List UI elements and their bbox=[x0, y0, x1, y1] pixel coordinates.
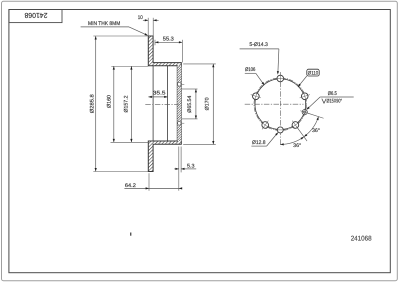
svg-text:55.3: 55.3 bbox=[163, 36, 174, 42]
svg-text:36°: 36° bbox=[312, 128, 320, 134]
svg-text:Ø170: Ø170 bbox=[205, 97, 211, 110]
svg-text:Ø157.2: Ø157.2 bbox=[123, 95, 129, 112]
svg-text:Ø12.8: Ø12.8 bbox=[252, 140, 266, 146]
svg-text:5-Ø14.3: 5-Ø14.3 bbox=[249, 42, 268, 48]
svg-text:64.2: 64.2 bbox=[125, 183, 136, 189]
svg-text:Ø65.54: Ø65.54 bbox=[187, 96, 193, 113]
svg-text:36°: 36° bbox=[293, 143, 301, 149]
svg-text:Ø15X90°: Ø15X90° bbox=[327, 99, 343, 105]
svg-text:Ø6.5: Ø6.5 bbox=[328, 91, 337, 97]
svg-text:Ø106: Ø106 bbox=[245, 67, 256, 73]
svg-text:10: 10 bbox=[138, 15, 143, 21]
svg-text:Ø285.8: Ø285.8 bbox=[89, 94, 95, 113]
svg-text:Ø110: Ø110 bbox=[308, 70, 319, 76]
svg-text:5.3: 5.3 bbox=[187, 163, 195, 169]
svg-text:MIN THK 8MM: MIN THK 8MM bbox=[88, 21, 120, 27]
svg-text:241068: 241068 bbox=[24, 11, 47, 20]
svg-text:241068: 241068 bbox=[351, 235, 372, 242]
svg-text:35.5: 35.5 bbox=[153, 90, 166, 96]
svg-text:Ø160: Ø160 bbox=[107, 95, 113, 108]
